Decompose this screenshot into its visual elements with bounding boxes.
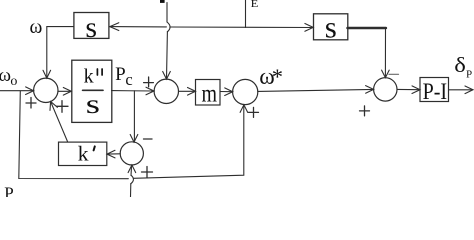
- svg-text:s: s: [86, 89, 100, 119]
- block m: [196, 80, 221, 106]
- summer S4: [120, 142, 143, 165]
- summer S2: [154, 79, 178, 103]
- svg-text:s: s: [85, 11, 97, 44]
- wire: block S (left) output down into summer S1 top: [47, 27, 74, 78]
- wire: summer S1 output into k''/s block: [58, 90, 71, 92]
- label P (bottom of cut-off top label): [160, 0, 165, 3]
- wire: long horizontal P_E distribution line: [110, 26, 167, 28]
- block k''/s: [72, 60, 112, 122]
- wire: omega_o input into summer S1: [0, 90, 33, 92]
- svg-text:c: c: [125, 70, 132, 89]
- block S left: [74, 13, 109, 39]
- block k': [59, 142, 107, 165]
- svg-text:k: k: [78, 142, 89, 166]
- sign + (S4 bottom input): [142, 167, 153, 178]
- svg-text:ω: ω: [0, 65, 11, 86]
- fraction bar of k''/s: [83, 89, 103, 91]
- svg-text:s: s: [325, 9, 337, 44]
- sign - (S4 top input): [144, 138, 153, 140]
- wire: P_E vertical from top edge: [245, 0, 247, 28]
- svg-text:P: P: [466, 69, 472, 81]
- svg-text:P: P: [4, 183, 13, 197]
- sign + (S3 left input): [360, 106, 370, 116]
- wire: P_c line from k''/s block into summer S2: [112, 90, 155, 92]
- svg-text:E: E: [251, 0, 259, 10]
- summer S5: [233, 79, 258, 104]
- svg-text:o: o: [10, 74, 17, 89]
- sign + (S5 bottom input): [249, 107, 259, 117]
- summer S3: [374, 78, 397, 101]
- svg-text:ω: ω: [30, 17, 43, 38]
- wire: P vertical from top into summer S2, with hop over horizontal line: [166, 3, 168, 23]
- wire: P-I output delta_P: [449, 89, 473, 91]
- summer S1: [34, 78, 58, 102]
- sign + (S2 left input): [144, 77, 154, 87]
- sign + (S1 left input): [26, 98, 36, 109]
- wire: summer S2 output into block m: [179, 90, 196, 92]
- wire: summer S3 output into P-I block: [397, 88, 420, 90]
- wire: summer S4 output into k' block: [107, 153, 120, 155]
- wire: block m output into summer S5: [220, 91, 233, 93]
- wire: k' output diagonal up into summer S1: [51, 102, 68, 142]
- svg-text:δ: δ: [454, 53, 466, 77]
- sign - (S3 top input): [389, 73, 399, 75]
- block P-I: [420, 78, 449, 102]
- wire: thick output of block S (right) down into summer S3: [348, 27, 386, 30]
- wire: P_c branch down into summer S4 top: [133, 91, 135, 142]
- svg-text:*: *: [272, 64, 283, 89]
- wire: bottom riser into summer S4 with hop over bottom rail: [130, 184, 132, 198]
- sign + (S1 lower-right input): [57, 101, 69, 113]
- wire: left feedback rail (down from omega_o line, along bottom): [19, 91, 129, 179]
- block S right: [314, 14, 348, 40]
- wire: omega* line from summer S5 to summer S3: [258, 89, 374, 91]
- svg-text:k: k: [84, 65, 94, 87]
- svg-text:P-I: P-I: [423, 79, 448, 104]
- svg-text:P: P: [115, 64, 126, 85]
- svg-text:m: m: [202, 79, 218, 107]
